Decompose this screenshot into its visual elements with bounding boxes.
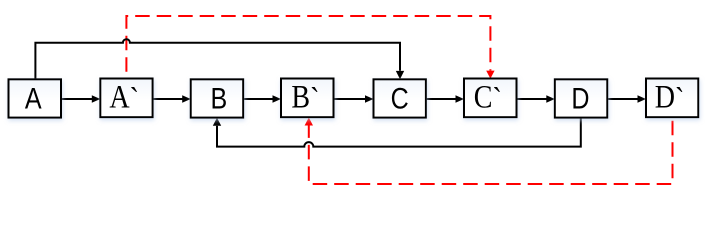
svg-text:D`: D`: [655, 79, 685, 118]
node D box: [555, 79, 608, 117]
arrowhead black into C top: [396, 71, 404, 79]
wire arrow A to A': [61, 95, 100, 103]
wire arrow C' to D: [517, 95, 555, 103]
svg-text:A: A: [25, 82, 42, 115]
node B box: [191, 79, 244, 117]
svg-text:A`: A`: [109, 79, 139, 118]
arrowhead black into B bottom: [213, 118, 221, 126]
wire red dashed feedback D' to B' (down from D', bottom run, up into B'): [309, 117, 673, 184]
svg-text:C: C: [391, 82, 409, 115]
arrowhead red into B' bottom: [305, 118, 313, 126]
node C box: [374, 79, 426, 117]
wire black feed-forward A to C (up from A, top run with hop over red wire, down into C): [35, 39, 400, 79]
wire red dashed feed-forward A' to C' (vertical up from A', top run, down into C'): [126, 16, 490, 79]
svg-text:D: D: [571, 82, 589, 115]
node A' box: [100, 79, 152, 118]
wire arrow C to C': [426, 95, 464, 103]
svg-text:B`: B`: [291, 79, 319, 118]
svg-text:B: B: [211, 82, 228, 115]
svg-text:C`: C`: [474, 79, 502, 118]
wire arrow B to B': [243, 95, 281, 103]
arrowhead red into C' top: [486, 71, 494, 79]
node B' box: [281, 79, 334, 118]
wire arrow B' to C: [334, 95, 374, 103]
node A box: [9, 79, 62, 117]
wire arrow D to D': [607, 95, 646, 103]
wire black feedback D to B (down from D, bottom run with hop over red wire, up into B): [217, 118, 581, 147]
node D' box: [646, 79, 698, 118]
wire arrow A' to B: [153, 95, 191, 103]
node C' box: [464, 79, 517, 118]
